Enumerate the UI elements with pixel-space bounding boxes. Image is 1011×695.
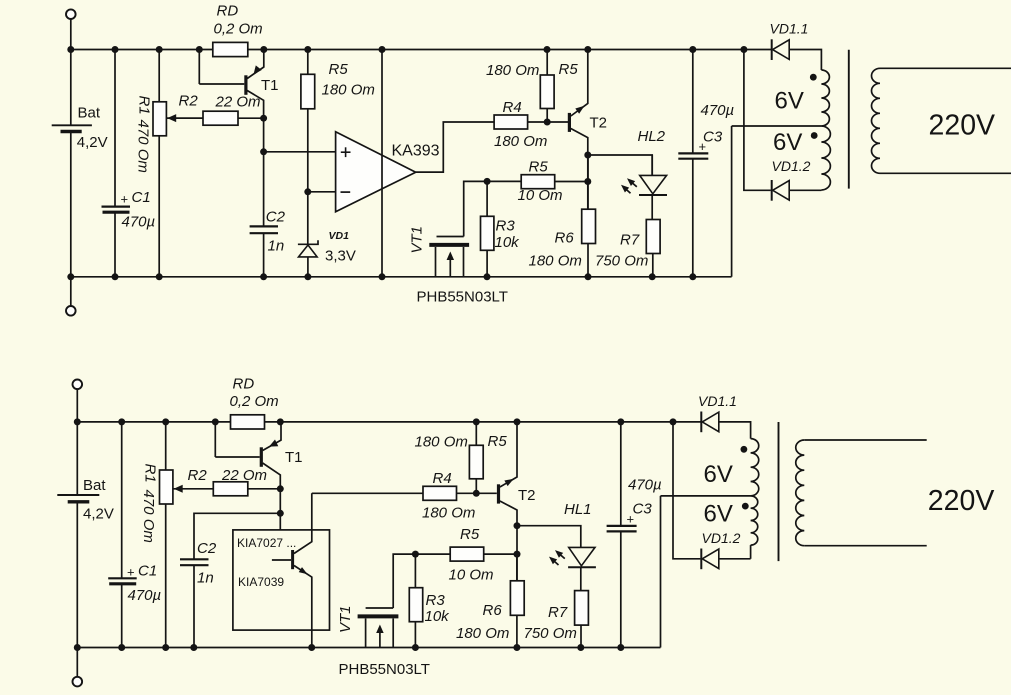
svg-text:VD1.1: VD1.1 bbox=[770, 20, 809, 36]
svg-text:Bat: Bat bbox=[83, 477, 106, 494]
transformer core (2) bbox=[778, 422, 780, 561]
wire T2 collector down bbox=[587, 155, 589, 209]
transformer core bbox=[848, 50, 850, 189]
svg-text:R2: R2 bbox=[179, 93, 199, 110]
wire supply crossing op-amp bbox=[381, 50, 383, 277]
wire R4 to T2 base bbox=[528, 121, 569, 123]
transformer T primary winding bbox=[880, 67, 1011, 69]
svg-text:VT1: VT1 bbox=[337, 605, 354, 633]
wire -input bbox=[308, 191, 336, 193]
svg-text:470µ: 470µ bbox=[128, 587, 162, 604]
svg-text:PHB55N03LT: PHB55N03LT bbox=[339, 661, 430, 678]
zener diode VD1 3,3V bbox=[307, 192, 309, 245]
svg-text:0,2 Om: 0,2 Om bbox=[230, 393, 279, 410]
wire top rail (bottom circuit) bbox=[77, 421, 230, 423]
wire center tap bbox=[732, 125, 822, 127]
svg-text:1n: 1n bbox=[197, 570, 214, 587]
svg-text:6V: 6V bbox=[773, 129, 802, 156]
svg-text:22 Om: 22 Om bbox=[221, 467, 267, 484]
wire R5 to T2 collector (2) bbox=[484, 553, 517, 555]
capacitor C1 (2) bbox=[121, 422, 123, 578]
resistor R6 180 Om bbox=[587, 155, 589, 209]
diode VD1.1 (2) bbox=[700, 412, 702, 433]
svg-text:22 Om: 22 Om bbox=[215, 94, 261, 111]
svg-text:VD1.1: VD1.1 bbox=[698, 393, 737, 409]
junction dot R3 top bbox=[484, 178, 491, 185]
junction dots bottom rail 2 bbox=[74, 644, 81, 651]
svg-text:R5: R5 bbox=[529, 158, 549, 175]
led HL1 bbox=[569, 547, 595, 565]
svg-text:+: + bbox=[127, 565, 135, 580]
svg-text:C2: C2 bbox=[197, 540, 217, 557]
junction dot R5/R4/T2 (2) bbox=[473, 490, 480, 497]
svg-text:6V: 6V bbox=[775, 88, 804, 115]
junction dot T2 collector (2) bbox=[514, 522, 521, 529]
wire gate node bbox=[464, 181, 522, 236]
terminal + (top circuit) bbox=[66, 9, 76, 19]
svg-text:R5: R5 bbox=[329, 61, 349, 78]
junction dot T2 collector bbox=[584, 152, 591, 159]
mosfet VT1 PHB55N03LT bbox=[437, 236, 464, 238]
transformer T primary winding (2) bbox=[804, 439, 926, 441]
transistor T1 (2) bbox=[260, 447, 263, 467]
svg-text:180 Om: 180 Om bbox=[415, 434, 468, 451]
svg-text:6V: 6V bbox=[704, 500, 733, 527]
svg-text:R5: R5 bbox=[559, 61, 579, 78]
emission arrows HL1 bbox=[558, 552, 565, 558]
resistor R4 (2) bbox=[423, 486, 457, 500]
svg-text:+: + bbox=[627, 512, 635, 527]
resistor RD (2) bbox=[231, 415, 265, 429]
wire to C2 (2) bbox=[194, 513, 280, 559]
svg-text:T2: T2 bbox=[518, 487, 536, 504]
svg-text:180 Om: 180 Om bbox=[422, 504, 475, 521]
diode VD1.2 (2) bbox=[700, 549, 702, 570]
svg-text:HL2: HL2 bbox=[638, 128, 666, 145]
svg-text:R1: R1 bbox=[142, 464, 159, 483]
transistor inside KIA box bbox=[291, 550, 294, 569]
transistor T1 (PNP) bbox=[244, 75, 247, 95]
ic KIA7027…KIA7039 box bbox=[233, 530, 330, 630]
capacitor C1 bbox=[114, 50, 116, 207]
resistor R7 750 Om bbox=[646, 220, 660, 254]
svg-text:KA393: KA393 bbox=[392, 142, 440, 159]
wire KIA output to R4 bbox=[312, 492, 423, 494]
svg-text:10k: 10k bbox=[495, 234, 521, 251]
wire T1 collector down (2) bbox=[279, 489, 281, 530]
capacitor C3 (2) bbox=[620, 422, 622, 526]
potentiometer R1 (2) bbox=[165, 422, 167, 470]
wire R2 to T1 collector (2) bbox=[248, 488, 280, 490]
wire bottom rail (bottom circuit) bbox=[77, 647, 660, 649]
polarity dot upper 6V bbox=[810, 74, 817, 81]
terminal - (top circuit) bbox=[70, 277, 72, 306]
wire T2 collector down (2) bbox=[516, 526, 518, 581]
svg-text:PHB55N03LT: PHB55N03LT bbox=[417, 289, 508, 306]
svg-text:R5: R5 bbox=[488, 433, 508, 450]
svg-text:0,2 Om: 0,2 Om bbox=[214, 21, 263, 38]
svg-text:180 Om: 180 Om bbox=[456, 625, 509, 642]
battery Bat 4,2V (2) bbox=[76, 422, 78, 495]
wiper arrow of R1 bbox=[166, 117, 203, 119]
svg-text:T1: T1 bbox=[285, 449, 303, 466]
svg-text:750 Om: 750 Om bbox=[524, 625, 577, 642]
junction dots on top rail bbox=[67, 46, 74, 53]
wire R2 to T1 collector bbox=[238, 117, 264, 119]
resistor R6 (2) bbox=[516, 554, 518, 581]
svg-text:R7: R7 bbox=[620, 232, 640, 249]
svg-text:T2: T2 bbox=[590, 114, 608, 131]
wire gate node (2) bbox=[393, 554, 450, 608]
resistor R2 22 Om bbox=[203, 111, 238, 125]
svg-text:10k: 10k bbox=[425, 608, 451, 625]
svg-text:R3: R3 bbox=[496, 217, 516, 234]
svg-text:R2: R2 bbox=[188, 467, 208, 484]
svg-text:VD1.2: VD1.2 bbox=[702, 530, 741, 546]
svg-text:HL1: HL1 bbox=[564, 501, 592, 518]
wire top rail (top circuit) bbox=[71, 49, 213, 51]
resistor R4 180 Om bbox=[494, 115, 527, 129]
mosfet VT1 (2) bbox=[366, 607, 394, 609]
resistor R7 (2) bbox=[575, 591, 589, 626]
svg-text:180 Om: 180 Om bbox=[494, 133, 547, 150]
svg-text:1n: 1n bbox=[268, 238, 285, 255]
svg-text:220V: 220V bbox=[928, 485, 995, 517]
svg-text:VT1: VT1 bbox=[409, 226, 426, 254]
resistor R5 10 Om bbox=[521, 175, 555, 189]
resistor R5 180 Om (left) bbox=[307, 50, 309, 75]
op-amp U1 KA393 bbox=[336, 132, 416, 212]
svg-text:R1: R1 bbox=[136, 96, 153, 115]
svg-text:10 Om: 10 Om bbox=[449, 566, 494, 583]
svg-text:10 Om: 10 Om bbox=[518, 187, 563, 204]
svg-text:C2: C2 bbox=[266, 209, 286, 226]
svg-text:KIA7039: KIA7039 bbox=[238, 575, 284, 589]
svg-text:180 Om: 180 Om bbox=[322, 82, 375, 99]
polarity dot upper 6V (2) bbox=[741, 446, 748, 453]
svg-text:180 Om: 180 Om bbox=[529, 253, 582, 270]
svg-text:4,2V: 4,2V bbox=[83, 506, 114, 523]
svg-text:C3: C3 bbox=[633, 501, 653, 518]
svg-text:VD1: VD1 bbox=[329, 230, 350, 242]
wire bottom rail (top circuit) bbox=[71, 276, 732, 278]
resistor R3 (2) bbox=[414, 554, 416, 588]
svg-text:Bat: Bat bbox=[78, 104, 101, 121]
svg-text:RD: RD bbox=[217, 2, 239, 19]
svg-text:+: + bbox=[121, 192, 129, 207]
polarity dot lower 6V (2) bbox=[742, 503, 749, 510]
transformer T secondary winding (2) bbox=[719, 422, 751, 439]
junction dot -input bbox=[304, 188, 311, 195]
svg-text:3,3V: 3,3V bbox=[325, 247, 356, 264]
svg-text:R7: R7 bbox=[548, 604, 568, 621]
polarity dot lower 6V bbox=[811, 132, 818, 139]
resistor RD 0,2 Om bbox=[213, 42, 248, 56]
battery Bat 4,2V bbox=[70, 50, 72, 126]
svg-text:470µ: 470µ bbox=[701, 102, 735, 119]
wire R4 to T2 base (2) bbox=[457, 492, 497, 494]
potentiometer R1 470 Om bbox=[158, 50, 160, 102]
svg-text:R6: R6 bbox=[555, 230, 575, 247]
svg-text:R4: R4 bbox=[433, 470, 452, 487]
svg-text:R3: R3 bbox=[426, 592, 446, 609]
junction dots top rail 2 bbox=[74, 418, 81, 425]
junction dot C2 node (2) bbox=[277, 510, 284, 517]
wire rectifier + branch bbox=[744, 50, 771, 191]
terminal + (bottom circuit) bbox=[73, 380, 83, 390]
transistor T2 (2) bbox=[497, 484, 500, 503]
svg-text:470µ: 470µ bbox=[628, 477, 662, 494]
wiper arrow of R1 (2) bbox=[173, 488, 213, 490]
junction dot R3 top (2) bbox=[412, 551, 419, 558]
junction dot R5 node (2) bbox=[514, 551, 521, 558]
wire R5 10 Om to T2 collector bbox=[555, 181, 588, 183]
terminal - (bottom circuit) bbox=[76, 648, 78, 678]
svg-text:470µ: 470µ bbox=[122, 214, 156, 231]
emission arrows HL2 bbox=[630, 181, 637, 187]
junction dots on bottom rail bbox=[67, 273, 74, 280]
svg-text:220V: 220V bbox=[929, 109, 996, 141]
wire T1 collector to +input and C2 bbox=[263, 118, 265, 226]
transformer T secondary winding 6V x2 bbox=[789, 50, 821, 71]
junction dot R5 10 Om node bbox=[584, 178, 591, 185]
wire T2 collector to HL2 bbox=[588, 155, 652, 175]
svg-text:R6: R6 bbox=[483, 602, 503, 619]
transistor T2 (NPN) bbox=[568, 113, 571, 132]
junction dot T1 collector (2) bbox=[277, 485, 284, 492]
resistor R2 (2) bbox=[213, 482, 248, 496]
svg-text:4,2V: 4,2V bbox=[77, 134, 108, 151]
diode VD1.2 bbox=[771, 180, 773, 201]
svg-text:470 Om: 470 Om bbox=[135, 120, 152, 173]
resistor R3 10k bbox=[486, 181, 488, 216]
svg-text:R4: R4 bbox=[503, 99, 522, 116]
capacitor C3 470µ bbox=[692, 50, 694, 154]
svg-text:VD1.2: VD1.2 bbox=[772, 158, 811, 174]
wire T2 collector to HL1 bbox=[517, 526, 581, 548]
resistor R5 10 Om (2) bbox=[450, 547, 484, 561]
wire op-amp output to R4 bbox=[416, 122, 494, 172]
svg-text:C1: C1 bbox=[132, 189, 151, 206]
svg-text:6V: 6V bbox=[704, 461, 733, 488]
svg-text:RD: RD bbox=[233, 375, 255, 392]
junction dot T1 collector / R2 bbox=[260, 115, 267, 122]
wire center tap (2) bbox=[661, 495, 751, 497]
capacitor C2 (2) bbox=[180, 558, 209, 560]
resistor R5 180 Om (2) bbox=[475, 422, 477, 445]
svg-text:+: + bbox=[699, 139, 707, 154]
svg-text:180 Om: 180 Om bbox=[486, 62, 539, 79]
wire +input bbox=[264, 151, 336, 153]
capacitor C2 1n bbox=[250, 225, 278, 227]
junction dot +input bbox=[260, 148, 267, 155]
svg-text:470 Om: 470 Om bbox=[140, 490, 157, 543]
led HL2 bbox=[651, 155, 653, 175]
svg-text:KIA7027 ...: KIA7027 ... bbox=[237, 536, 296, 550]
junction dot R5/R4/T2 bbox=[544, 119, 551, 126]
diode VD1.1 bbox=[771, 39, 773, 60]
svg-text:T1: T1 bbox=[261, 77, 279, 94]
svg-text:R5: R5 bbox=[460, 526, 480, 543]
svg-text:C1: C1 bbox=[138, 563, 157, 580]
resistor R5 180 Om (T2) bbox=[546, 50, 548, 76]
svg-text:750 Om: 750 Om bbox=[595, 252, 648, 269]
wire rectifier + branch (2) bbox=[673, 422, 700, 559]
